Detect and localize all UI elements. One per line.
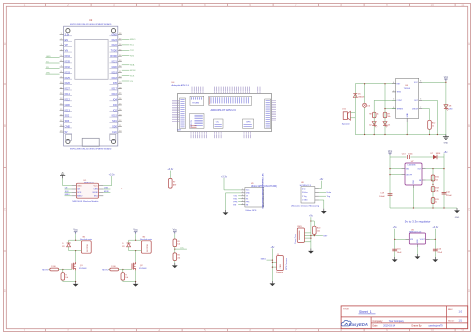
wire feedback xyxy=(426,169,434,208)
svg-text:SD0: SD0 xyxy=(112,126,117,129)
wire branch A to pin CONT xyxy=(374,100,396,134)
svg-text:31: 31 xyxy=(119,71,121,73)
wire net Trig xyxy=(319,196,330,198)
node +5v flag buck output xyxy=(444,151,449,157)
ground camera xyxy=(270,281,276,286)
ground divider xyxy=(172,263,178,268)
svg-text:R8: R8 xyxy=(369,113,371,115)
svg-text:OC: OC xyxy=(216,122,220,124)
svg-text:29: 29 xyxy=(119,82,121,84)
svg-text:R6: R6 xyxy=(177,255,179,257)
svg-text:IO13: IO13 xyxy=(65,109,71,112)
ground GND buck xyxy=(454,208,460,219)
svg-text:38: 38 xyxy=(119,33,121,35)
resistor R6 divider bottom xyxy=(173,253,180,261)
svg-text:33: 33 xyxy=(119,60,121,62)
svg-text:1k: 1k xyxy=(377,113,379,115)
svg-text:GND: GND xyxy=(111,66,117,69)
wire GND pin1 xyxy=(406,122,408,135)
svg-text:+3.3v: +3.3v xyxy=(167,168,174,171)
svg-text:IO15: IO15 xyxy=(112,115,118,118)
node +3.3v flag R7 xyxy=(167,168,174,173)
U4 top pins group C xyxy=(258,87,260,94)
svg-text:26: 26 xyxy=(119,98,121,100)
svg-text:Vcc: Vcc xyxy=(388,149,393,153)
transistor Q2 MOSFET xyxy=(132,262,147,270)
svg-text:3 Echo: 3 Echo xyxy=(302,192,308,194)
resistor R5 divider top xyxy=(173,239,180,247)
svg-text:4: 4 xyxy=(158,328,160,332)
svg-text:R5: R5 xyxy=(177,241,179,243)
svg-text:R 100: R 100 xyxy=(111,266,116,268)
svg-text:11: 11 xyxy=(461,3,465,7)
U4 right pins xyxy=(272,101,277,120)
resistor R2 pulldown xyxy=(61,270,68,281)
node +5v flag U5 xyxy=(393,226,398,231)
svg-text:1 GND: 1 GND xyxy=(302,200,308,202)
svg-text:SD1: SD1 xyxy=(112,120,117,123)
wire net MISO NRF left xyxy=(65,194,72,196)
node +3.3v flag U5 xyxy=(432,226,439,231)
EasyEDA logo xyxy=(341,320,368,327)
U9 pins xyxy=(241,189,250,207)
svg-text:2: 2 xyxy=(393,90,394,92)
wire DISCH pin7 xyxy=(422,109,429,121)
capacitor C14 xyxy=(442,191,453,197)
node +3.3v flag GPS xyxy=(221,175,228,181)
svg-text:2: 2 xyxy=(67,328,69,332)
resistor R19 xyxy=(431,198,438,204)
wire net PPS GPS xyxy=(233,202,241,204)
U4 inputs block xyxy=(190,114,205,129)
ground U5 center xyxy=(415,254,421,259)
svg-text:GND: GND xyxy=(111,33,117,36)
svg-text:22uF: 22uF xyxy=(438,252,443,254)
svg-text:2 Trig: 2 Trig xyxy=(302,196,307,198)
svg-text:EN: EN xyxy=(65,39,69,42)
svg-text:IO23: IO23 xyxy=(112,39,118,42)
svg-text:5: 5 xyxy=(242,200,243,202)
U4 TELEM block xyxy=(190,96,204,105)
junction dots buck bottom xyxy=(432,207,444,208)
LED D8 xyxy=(444,105,453,111)
resistor R16 xyxy=(431,175,438,181)
module U1 NRF24L01 xyxy=(72,180,104,203)
svg-text:1: 1 xyxy=(61,33,62,35)
svg-text:10uF: 10uF xyxy=(397,252,402,254)
svg-text:1: 1 xyxy=(24,3,26,7)
svg-text:KEY: KEY xyxy=(323,235,328,237)
resistor R1 gate series xyxy=(50,266,63,271)
wires SW1 to rail xyxy=(304,233,311,242)
capacitor C16 xyxy=(433,248,443,254)
wire gate Q1 xyxy=(62,269,72,270)
svg-text:Power Conn: Power Conn xyxy=(295,234,297,244)
svg-text:IO27: IO27 xyxy=(65,88,71,91)
svg-text:IO5: IO5 xyxy=(113,82,118,85)
svg-text:1: 1 xyxy=(242,189,243,191)
power Vcc flag motor M1 xyxy=(73,228,78,236)
resistor R8 xyxy=(369,112,378,118)
svg-text:R9: R9 xyxy=(388,113,390,115)
transistor Q1 MOSFET xyxy=(72,262,87,270)
svg-text:MOTOR: MOTOR xyxy=(87,244,89,252)
svg-text:IO16: IO16 xyxy=(112,93,118,96)
wire net LVL xyxy=(174,247,187,253)
svg-text:IO0: IO0 xyxy=(113,104,118,107)
U4 top pins group A xyxy=(192,87,203,94)
svg-text:Trig: Trig xyxy=(327,196,330,198)
ground GND 555 xyxy=(443,135,449,145)
svg-text:R 100: R 100 xyxy=(51,266,56,268)
svg-text:TRIG: TRIG xyxy=(397,92,402,94)
svg-text:10k: 10k xyxy=(177,244,180,246)
svg-text:TS555: TS555 xyxy=(404,88,411,90)
svg-text:IO4: IO4 xyxy=(113,98,118,101)
svg-text:7: 7 xyxy=(420,107,421,109)
svg-text:3: 3 xyxy=(113,328,115,332)
wire OUT pin3 xyxy=(422,100,437,134)
svg-text:LED: LED xyxy=(449,109,453,111)
svg-text:5: 5 xyxy=(61,55,62,57)
wire top rail 555 xyxy=(355,83,395,85)
svg-text:3: 3 xyxy=(420,99,421,101)
resistor R9 xyxy=(383,112,390,118)
svg-text:R7: R7 xyxy=(173,182,175,184)
svg-text:MOSI: MOSI xyxy=(130,70,136,72)
svg-text:Date:: Date: xyxy=(373,325,379,328)
svg-text:Sheet_1: Sheet_1 xyxy=(359,310,372,314)
wire buck left rail xyxy=(389,157,401,208)
svg-text:100n: 100n xyxy=(408,154,412,156)
svg-text:6: 6 xyxy=(249,328,251,332)
power Vcc flag buck xyxy=(388,149,393,157)
wire GPS vcc xyxy=(224,181,241,190)
junction dots 555 right xyxy=(407,134,438,135)
svg-text:DISCH: DISCH xyxy=(412,108,419,110)
wire net RX2 from U2 right xyxy=(122,56,135,58)
svg-text:+3.3v: +3.3v xyxy=(432,226,439,229)
wire diode D10 top xyxy=(68,240,70,250)
svg-text:R18: R18 xyxy=(435,188,438,190)
svg-text:7: 7 xyxy=(295,328,297,332)
capacitor C15 xyxy=(392,248,402,254)
svg-text:MISO: MISO xyxy=(77,196,83,198)
ground motor M1 xyxy=(73,282,79,287)
svg-text:6: 6 xyxy=(249,3,251,7)
svg-text:1N4148: 1N4148 xyxy=(358,97,364,99)
svg-text:MISO: MISO xyxy=(130,39,136,41)
diode D6 xyxy=(363,103,371,107)
svg-text:VP: VP xyxy=(65,44,69,47)
svg-text:18: 18 xyxy=(60,125,62,127)
svg-text:IRLZ44N: IRLZ44N xyxy=(79,268,87,270)
svg-text:5v to 3.3v regulator: 5v to 3.3v regulator xyxy=(405,219,431,223)
svg-text:100uF: 100uF xyxy=(379,196,385,198)
svg-text:24: 24 xyxy=(119,109,121,111)
svg-text:Ublox GPS: Ublox GPS xyxy=(246,210,257,212)
svg-text:IRQ: IRQ xyxy=(94,196,98,198)
svg-text:SD2: SD2 xyxy=(65,115,70,118)
svg-text:ESP32-WROOM-32 DEVELOPMENT BOA: ESP32-WROOM-32 DEVELOPMENT BOARD xyxy=(70,23,112,26)
ground NRF top left xyxy=(60,173,65,179)
svg-text:7: 7 xyxy=(61,66,62,68)
U4 left header connector xyxy=(177,98,185,132)
svg-text:15: 15 xyxy=(60,109,62,111)
svg-text:ARDUPILOT APM 2.6: ARDUPILOT APM 2.6 xyxy=(211,108,237,112)
svg-text:2: 2 xyxy=(242,191,243,193)
svg-text:SM01: SM01 xyxy=(261,258,267,260)
wire motor M1 top xyxy=(69,235,82,240)
wire net MOSI from U2 right xyxy=(122,70,136,72)
svg-text:SS34: SS34 xyxy=(436,153,440,155)
svg-text:36: 36 xyxy=(119,44,121,46)
wire source Q1 to gnd xyxy=(63,270,76,282)
wire net SCK from U2 right xyxy=(122,75,135,77)
module U2 ESP32-WROOM-32 development board xyxy=(64,19,118,151)
svg-text:14: 14 xyxy=(60,104,62,106)
svg-text:Vcc: Vcc xyxy=(73,228,78,232)
wire motor M1 bottom xyxy=(69,250,82,262)
svg-text:11: 11 xyxy=(60,87,62,89)
svg-text:1: 1 xyxy=(24,328,26,332)
svg-text:TITLE:: TITLE: xyxy=(343,308,350,310)
resistor R3 gate series xyxy=(110,266,123,271)
svg-text:AMS1117-3.3: AMS1117-3.3 xyxy=(409,231,422,234)
svg-text:B: B xyxy=(4,124,6,128)
wire NRF gnd xyxy=(63,178,72,185)
wire motor M2 bottom xyxy=(129,250,142,262)
svg-text:34: 34 xyxy=(119,55,121,57)
svg-text:THRES: THRES xyxy=(397,108,404,110)
svg-text:9: 9 xyxy=(61,76,62,78)
svg-text:SD3: SD3 xyxy=(65,120,70,123)
motor M2 xyxy=(140,236,152,253)
svg-text:37: 37 xyxy=(119,39,121,41)
svg-text:16: 16 xyxy=(60,114,62,116)
wire net CSN NRF right xyxy=(103,187,110,189)
resistor R4 pulldown xyxy=(121,270,128,281)
LED D3 xyxy=(383,122,390,128)
module U4 ArduPilot APM 2.6 xyxy=(172,82,272,131)
svg-text:CMD: CMD xyxy=(65,126,71,129)
wire divider gnd xyxy=(174,261,176,264)
U4 OC block xyxy=(214,119,224,128)
svg-text:MOTOR: MOTOR xyxy=(147,244,149,252)
svg-text:IO2: IO2 xyxy=(113,109,118,112)
U4 top I/O block xyxy=(209,96,252,105)
svg-text:9: 9 xyxy=(386,3,388,7)
svg-text:10k: 10k xyxy=(435,179,438,181)
node mark right of NRF xyxy=(121,188,123,190)
svg-text:IO34: IO34 xyxy=(65,55,71,58)
wire buck gnd pin xyxy=(413,188,414,209)
connector J1 FPV camera xyxy=(272,254,288,274)
svg-text:IO19: IO19 xyxy=(112,71,118,74)
svg-text:GPS: GPS xyxy=(246,122,251,124)
U4 GPS block xyxy=(243,119,254,128)
svg-text:EasyEDA: EasyEDA xyxy=(349,322,368,327)
wire net MOSI NRF right xyxy=(103,191,110,193)
svg-text:Your Company: Your Company xyxy=(389,320,405,323)
diode D10 flyback xyxy=(62,243,70,248)
power Vcc flag 555 xyxy=(444,75,449,83)
svg-text:220uF: 220uF xyxy=(446,195,452,197)
svg-text:27: 27 xyxy=(119,93,121,95)
svg-text:Ultrasonic Distance Measuring: Ultrasonic Distance Measuring xyxy=(291,205,320,208)
svg-text:UBLOX NEO-6M GPS MODULE AN: UBLOX NEO-6M GPS MODULE AN xyxy=(261,173,264,209)
svg-text:4: 4 xyxy=(242,197,243,199)
svg-text:MISO: MISO xyxy=(65,194,70,196)
connector SW1 power conn xyxy=(295,226,304,244)
svg-text:R19: R19 xyxy=(435,199,438,201)
svg-text:3.3v: 3.3v xyxy=(65,33,70,36)
svg-text:2: 2 xyxy=(67,3,69,7)
svg-text:ESP32-WROOM-32 DEVELOPMENT BOA: ESP32-WROOM-32 DEVELOPMENT BOARD xyxy=(70,147,112,150)
wire camera rail xyxy=(271,251,273,281)
U4 bottom pins group B xyxy=(215,132,222,139)
module U8 HC-SR04 ultrasonic xyxy=(291,182,320,207)
node +5v flag U8 xyxy=(319,178,324,183)
svg-text:19: 19 xyxy=(60,131,62,133)
svg-text:5: 5 xyxy=(204,3,206,7)
svg-text:IO25: IO25 xyxy=(65,77,71,80)
svg-text:IO21: IO21 xyxy=(112,61,118,64)
module U9 Ublox NEO-6M GPS xyxy=(245,173,277,212)
wire left rail 555 xyxy=(354,84,356,135)
svg-text:Vcc: Vcc xyxy=(133,228,138,232)
wire NRF vcc xyxy=(103,179,111,186)
svg-text:Vcc: Vcc xyxy=(444,75,449,79)
svg-text:ANT: ANT xyxy=(173,184,176,187)
U4 right header connector xyxy=(265,99,271,129)
node +5v flag switch xyxy=(309,215,314,221)
svg-text:IO12: IO12 xyxy=(65,98,71,101)
svg-text:CAM: CAM xyxy=(279,264,282,269)
junction dots 555 xyxy=(364,83,386,135)
svg-text:ON/OFF: ON/OFF xyxy=(406,174,412,176)
svg-text:SDA: SDA xyxy=(130,64,135,67)
wire OUT node xyxy=(426,157,445,208)
wire net RX1 GPS xyxy=(233,199,241,201)
svg-text:Ardupilot APM 2.6: Ardupilot APM 2.6 xyxy=(172,84,190,87)
svg-text:30: 30 xyxy=(119,76,121,78)
svg-text:IO22: IO22 xyxy=(112,44,118,47)
svg-text:TXD0: TXD0 xyxy=(111,50,118,53)
ground motor M2 xyxy=(133,282,139,287)
wire net SCL from U2 right xyxy=(122,45,135,47)
wire R20 branch xyxy=(304,221,328,237)
svg-text:CONT: CONT xyxy=(397,100,403,102)
svg-text:Company:: Company: xyxy=(373,321,384,323)
svg-text:5V: 5V xyxy=(65,131,68,134)
wire U8 5v xyxy=(319,184,321,189)
power Vcc flag motor M2 xyxy=(133,228,138,236)
svg-text:10k: 10k xyxy=(317,231,320,233)
wire U5 output xyxy=(430,232,436,258)
wire U5 input xyxy=(394,232,405,258)
U8 pins xyxy=(302,188,319,201)
wire net RX to U2 left xyxy=(46,67,60,69)
U4 top pins group B xyxy=(215,87,250,94)
svg-text:R20: R20 xyxy=(317,228,320,230)
wire switch rail xyxy=(310,220,311,248)
wire net CE NRF left xyxy=(65,187,72,189)
svg-text:28: 28 xyxy=(119,87,121,89)
svg-text:Camera: Camera xyxy=(276,272,284,274)
wire buck top rail xyxy=(390,156,444,158)
regulator U7 LM2596 xyxy=(401,161,425,188)
speaker LS1 xyxy=(342,108,356,125)
diode D7 xyxy=(431,153,441,159)
svg-text:VN: VN xyxy=(65,50,69,53)
wire motor M2 top xyxy=(129,235,142,240)
svg-text:13: 13 xyxy=(60,98,62,100)
wire diode D20 top xyxy=(128,240,130,250)
svg-text:3: 3 xyxy=(113,3,115,7)
wire net CS from U2 right xyxy=(122,81,134,83)
svg-text:10k: 10k xyxy=(125,277,128,279)
svg-text:IO35: IO35 xyxy=(65,61,71,64)
svg-text:23: 23 xyxy=(119,114,121,116)
U4 bottom pins group C xyxy=(244,132,251,139)
wire R7 xyxy=(169,173,171,178)
svg-text:FPV Camera: FPV Camera xyxy=(286,257,288,269)
svg-text:+3.3v: +3.3v xyxy=(109,173,116,176)
U4 bottom pins group A xyxy=(191,132,206,139)
LED D2 xyxy=(369,122,377,128)
svg-text:6: 6 xyxy=(242,203,243,205)
resistor R18 xyxy=(431,186,438,192)
ground U5 right xyxy=(432,257,438,262)
wire net TX1 GPS xyxy=(233,196,241,198)
svg-text:SCK: SCK xyxy=(77,192,82,194)
regulator U5 AMS1117-3.3 xyxy=(405,230,429,247)
svg-text:IO18: IO18 xyxy=(112,77,118,80)
svg-text:8: 8 xyxy=(340,3,342,7)
svg-text:R16: R16 xyxy=(435,177,438,179)
svg-text:IO14: IO14 xyxy=(65,93,71,96)
svg-text:CSN: CSN xyxy=(93,189,98,191)
wire U5 gnd xyxy=(416,247,418,254)
svg-text:RXD0: RXD0 xyxy=(110,55,117,58)
svg-text:12: 12 xyxy=(60,93,62,95)
svg-text:17: 17 xyxy=(60,120,62,122)
svg-text:IO32: IO32 xyxy=(65,66,71,69)
wire net TX2 from U2 right xyxy=(122,50,135,52)
svg-text:Brushed motor: Brushed motor xyxy=(80,238,92,241)
svg-text:D3: D3 xyxy=(388,124,390,126)
U2 pins left column xyxy=(60,33,72,134)
ground U5 left xyxy=(392,257,398,262)
wire GPS gnd xyxy=(226,193,241,210)
svg-text:20: 20 xyxy=(119,131,121,133)
svg-text:Drawn By:: Drawn By: xyxy=(412,325,423,328)
svg-text:VCC: VCC xyxy=(414,82,419,84)
svg-text:Brushed motor: Brushed motor xyxy=(140,238,152,241)
motor M1 xyxy=(80,236,92,253)
svg-text:VIN: VIN xyxy=(46,72,50,74)
svg-text:CSN: CSN xyxy=(104,187,109,189)
svg-text:SCK: SCK xyxy=(130,75,135,77)
svg-text:Vcc: Vcc xyxy=(173,228,178,232)
svg-text:IO17: IO17 xyxy=(112,88,118,91)
ground U8 xyxy=(321,209,327,214)
svg-text:MOSI: MOSI xyxy=(93,192,99,194)
svg-text:TELEM: TELEM xyxy=(192,103,199,105)
svg-text:GND: GND xyxy=(46,56,51,58)
power Vcc flag divider xyxy=(173,228,178,239)
